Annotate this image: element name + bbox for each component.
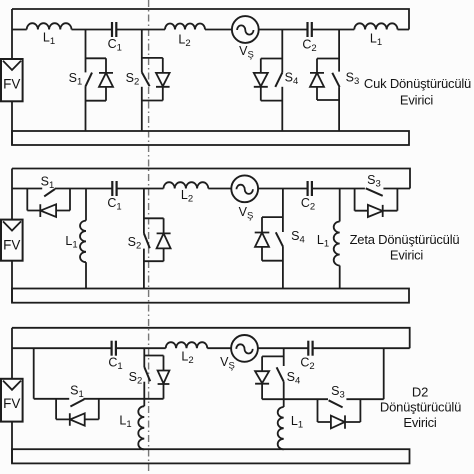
diode bypass loop of S3 circuit 3 — [318, 399, 361, 429]
inductor L2 circuit 1 — [165, 24, 205, 30]
diode of S3 circuit 1 — [310, 59, 324, 101]
diode of S2 circuit 3 — [158, 356, 170, 399]
wire L1 right bottom circuit 2 — [339, 266, 341, 289]
svg-text:FV: FV — [3, 77, 20, 92]
wire L1 right branch top circuit 2 — [339, 189, 341, 222]
wire L2 to source circuit 2 — [208, 188, 231, 190]
wire FV bottom circuit 3 — [11, 422, 13, 464]
wire S2 top connector circuit 1 — [142, 57, 163, 59]
wire S3 branch top circuit 1 — [338, 30, 340, 72]
capacitor C2 circuit 1 — [308, 22, 312, 37]
switch S3 blade circuit 3 — [329, 400, 343, 407]
wire S4 bottom connector circuit 2 — [262, 260, 283, 262]
diode bypass loop of S1 circuit 2 — [27, 189, 70, 218]
wire S2 bottom connector circuit 1 — [142, 100, 163, 102]
switch S4 blade circuit 1 — [275, 73, 282, 87]
diode bypass loop of S1 circuit 3 — [56, 399, 99, 426]
inductor L1 right circuit 2 — [334, 222, 340, 266]
wire S3 below blade circuit 1 — [338, 87, 340, 131]
switch S4 blade circuit 3 — [277, 367, 284, 381]
diode of S4 circuit 2 — [255, 217, 270, 261]
wire S2 branch top circuit 1 — [141, 30, 143, 73]
wire S1 below blade circuit 1 — [85, 87, 87, 131]
wire S1 right to C1 circuit 2 — [55, 188, 113, 190]
capacitor C2 circuit 3 — [308, 341, 312, 356]
source VS circle circuit 3 — [231, 335, 258, 362]
wire S4 branch top circuit 3 — [283, 348, 285, 366]
wire S4 branch top circuit 1 — [281, 30, 283, 73]
wire S4 top connector circuit 3 — [262, 355, 284, 357]
wire S2 below blade circuit 2 — [143, 249, 145, 289]
wire S3 right corner circuit 2 — [383, 188, 410, 190]
wire C2 to S3 circuit 2 — [312, 188, 365, 190]
switch S2 blade circuit 2 — [144, 233, 150, 248]
inductor L1 left circuit 2 — [80, 221, 86, 263]
source VS sine circuit 3 — [236, 344, 252, 353]
wire C2 to right corner circuit 3 — [313, 347, 410, 349]
inductor L1 left vertical circuit 3 — [138, 399, 144, 450]
wire component line segment left circuit 1 — [12, 29, 27, 31]
wire source to C2 circuit 2 — [258, 188, 308, 190]
wire lower line right segment circuit 3 — [346, 398, 383, 400]
inductor L1 left circuit 1 — [27, 23, 72, 29]
wire left vertical circuit 1 — [11, 9, 13, 59]
wire source to C2 circuit 1 — [259, 29, 308, 31]
inductor L1 right circuit 1 — [354, 23, 397, 29]
diode of S4 circuit 3 — [255, 356, 269, 399]
diode of S2 circuit 2 — [157, 218, 171, 261]
wire left branch corner circuit 3 — [34, 348, 69, 399]
capacitor C2 circuit 2 — [308, 181, 312, 196]
inductor L2 circuit 2 — [164, 182, 209, 188]
svg-text:Zeta Dönüştürücülü: Zeta Dönüştürücülü — [350, 232, 460, 247]
source VS circle circuit 2 — [231, 175, 258, 202]
wire S2 branch top circuit 2 — [143, 189, 145, 234]
wire S4 bottom connector circuit 1 — [261, 100, 283, 102]
diode of S4 circuit 1 — [254, 59, 268, 101]
source VS circle circuit 1 — [232, 16, 259, 43]
wire left vertical circuit 3 — [11, 328, 13, 379]
bottom bus bar circuit 1 — [12, 131, 409, 145]
wire L1 left bottom circuit 2 — [85, 262, 87, 288]
svg-text:Dönüştürücülü: Dönüştürücülü — [380, 400, 461, 415]
wire top rail circuit 1 — [12, 9, 409, 30]
diode of S1 circuit 1 — [99, 58, 113, 100]
wire top rail circuit 3 — [12, 328, 410, 348]
wire S2 top connector circuit 2 — [144, 217, 164, 219]
wire S4 top connector circuit 2 — [262, 216, 283, 218]
wire component line left circuit 2 — [12, 188, 42, 190]
diode bypass loop of S3 circuit 2 — [355, 189, 398, 218]
wire left vertical circuit 2 — [11, 169, 13, 220]
wire C1 to L2 circuit 1 — [116, 29, 165, 31]
wire S1 top connector circuit 1 — [86, 57, 107, 59]
inductor L2 circuit 3 — [166, 342, 208, 348]
photovoltaic panel FV circuit 1 — [1, 59, 23, 101]
wire C1 to L2 circuit 2 — [117, 188, 164, 190]
svg-text:FV: FV — [3, 238, 20, 253]
svg-text:Evirici: Evirici — [390, 248, 424, 263]
wire S2 top connector circuit 3 — [144, 355, 163, 357]
wire L1 left branch top circuit 2 — [85, 189, 87, 221]
diode of S2 circuit 1 — [156, 58, 170, 101]
wire S4 top connector circuit 1 — [261, 58, 283, 60]
source VS sine circuit 2 — [237, 185, 253, 194]
wire S2 branch top circuit 3 — [143, 348, 145, 367]
switch S2 blade circuit 1 — [142, 72, 150, 86]
wire S3 top connector circuit 1 — [317, 58, 339, 60]
capacitor C1 circuit 3 — [112, 341, 116, 356]
wire L2 to source circuit 3 — [207, 347, 231, 349]
wire S4 branch top circuit 2 — [282, 189, 284, 233]
svg-text:Cuk Dönüştürücülü: Cuk Dönüştürücülü — [364, 76, 471, 91]
svg-text:Evirici: Evirici — [403, 415, 437, 430]
source VS sine circuit 1 — [237, 25, 253, 34]
wire lower line left segment circuit 3 — [262, 398, 328, 400]
capacitor C1 circuit 2 — [112, 181, 116, 196]
photovoltaic panel FV circuit 2 — [1, 220, 23, 261]
center dash-dot axis line — [148, 0, 150, 474]
switch S4 blade circuit 2 — [276, 232, 283, 247]
switch S1 blade circuit 1 — [85, 73, 92, 87]
svg-text:Evirici: Evirici — [400, 93, 434, 108]
wire S4 below blade circuit 2 — [282, 247, 284, 289]
wire S1 bottom connector circuit 1 — [86, 100, 107, 102]
switch S3 blade circuit 1 — [332, 73, 339, 87]
wire S1 right segment circuit 3 — [84, 398, 164, 400]
wire L2 to source circuit 1 — [205, 29, 232, 31]
wire S1 branch top circuit 1 — [85, 30, 87, 73]
wire S2 below blade circuit 3 — [143, 382, 145, 399]
wire component line left circuit 3 — [12, 347, 112, 349]
bottom bus bar circuit 2 — [12, 289, 409, 303]
wire S2 below blade circuit 1 — [141, 87, 143, 131]
wire top rail circuit 2 — [12, 169, 410, 189]
wire L1 to C1 circuit 1 — [72, 29, 113, 31]
bottom bus bar circuit 3 — [12, 449, 410, 463]
inductor L1 right vertical circuit 3 — [278, 399, 284, 449]
wire C2 to L1 right circuit 1 — [312, 29, 355, 31]
svg-text:FV: FV — [3, 396, 20, 411]
switch S2 blade circuit 3 — [144, 367, 150, 381]
wire C1 to L2 circuit 3 — [116, 347, 166, 349]
wire FV bottom circuit 1 — [11, 101, 13, 145]
switch S3 blade circuit 2 — [366, 188, 383, 196]
photovoltaic panel FV circuit 3 — [1, 379, 23, 422]
capacitor C1 circuit 1 — [112, 22, 116, 37]
svg-text:D2: D2 — [412, 385, 428, 400]
switch S1 blade circuit 3 — [70, 399, 84, 406]
wire FV bottom circuit 2 — [11, 261, 13, 303]
wire S2 bottom connector circuit 2 — [144, 260, 164, 262]
wire right branch corner circuit 3 — [383, 348, 385, 399]
wire S4 below blade circuit 3 — [283, 381, 285, 399]
wire S3 bottom connector circuit 1 — [317, 99, 339, 101]
switch S1 blade circuit 2 — [44, 189, 55, 196]
wire source to C2 circuit 3 — [258, 347, 308, 349]
wire S4 below blade circuit 1 — [281, 87, 283, 131]
wire L1 right to corner circuit 1 — [398, 29, 410, 31]
